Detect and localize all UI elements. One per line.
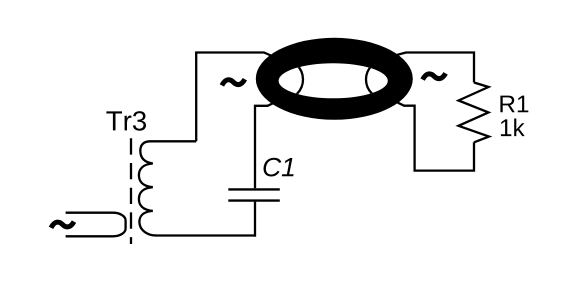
- wire: coil top riser and top line to toroid: [196, 53, 280, 142]
- wire: toroid top-right to resistor R1 top: [392, 53, 474, 83]
- wire through toroid hole (left winding arc): [263, 60, 303, 100]
- wire: coil bottom to capacitor bottom node: [155, 234, 255, 236]
- transformer Tr3 primary winding (single-turn hairpin): [66, 213, 126, 237]
- resistor R1 (zigzag): [459, 83, 490, 143]
- transformer Tr3 core (dashed line): [130, 138, 132, 244]
- wire: capacitor C1 bottom lead: [254, 202, 256, 237]
- label R1: [500, 96, 528, 113]
- capacitor C1: [228, 189, 279, 200]
- AC symbol ~ (right winding): [423, 73, 446, 79]
- label Tr3: [106, 111, 146, 131]
- transformer Tr3 secondary winding (coil, 4 humps): [139, 141, 196, 235]
- AC source symbol ~ (input): [51, 222, 74, 228]
- wire: resistor R1 bottom around to toroid bottom-right: [394, 101, 475, 171]
- toroid core (thick black ring): [256, 38, 413, 120]
- wire through toroid hole (right winding arc): [366, 60, 405, 99]
- label 1k: [501, 119, 525, 137]
- label C1: [264, 158, 294, 177]
- wire: toroid bottom-left down to capacitor C1: [255, 100, 281, 189]
- AC symbol ~ (left winding): [222, 79, 245, 85]
